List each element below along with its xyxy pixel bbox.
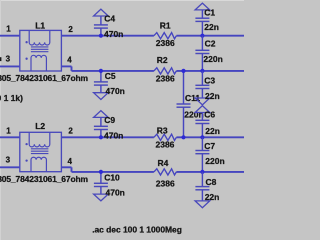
top edge highlight: [0, 0, 244, 2]
L2 core: [31, 148, 49, 150]
L1 secondary winding: [31, 55, 46, 71]
svg-text:R3: R3: [157, 125, 168, 135]
ground below C5: [94, 93, 109, 100]
svg-text:805_784231061_67ohm: 805_784231061_67ohm: [0, 73, 89, 83]
wire: jog down from pin 4 to row 2: [71, 66, 73, 71]
L1 primary winding: [29, 30, 50, 45]
wire: L1 pin 3 net (row 2 left): [0, 65, 20, 67]
L2 phase dot primary: [25, 143, 27, 145]
svg-text:1: 1: [6, 24, 11, 33]
junction: C11/row2: [181, 69, 185, 73]
junction: C4/row1: [99, 34, 103, 38]
svg-text:L1: L1: [35, 21, 45, 31]
svg-text:470n: 470n: [104, 29, 123, 39]
svg-text:C8: C8: [206, 177, 217, 187]
svg-text:220n: 220n: [205, 156, 224, 166]
L1 core: [31, 46, 49, 48]
capacitor C1: [201, 10, 203, 18]
wire: row 3 from R3 to right edge: [176, 136, 244, 138]
svg-text:470n: 470n: [106, 86, 125, 96]
capacitor C3: [201, 71, 203, 85]
wire: row 4 from R4 to right edge: [176, 171, 244, 173]
svg-text:22n: 22n: [204, 22, 219, 32]
ground (flipped) above C4: [94, 9, 109, 16]
wire: L1 pin 1 net (row 1 left): [0, 35, 20, 37]
ground (flipped) above C1: [195, 3, 210, 10]
resistor R2: [154, 68, 177, 74]
capacitor C7: [201, 137, 203, 150]
svg-text:4: 4: [67, 56, 72, 65]
L2 primary winding: [29, 132, 50, 147]
L1 phase dot secondary: [25, 58, 27, 60]
L2 phase dot secondary: [25, 159, 27, 161]
svg-text:.ac dec 100 1 1000Meg: .ac dec 100 1 1000Meg: [92, 224, 182, 234]
wire: L2 pin 4 stub: [61, 166, 71, 168]
junction: rail/row2: [200, 69, 204, 73]
svg-text:2386: 2386: [156, 178, 175, 188]
svg-text:C5: C5: [105, 71, 116, 81]
svg-text:C9: C9: [104, 115, 115, 125]
resistor R4: [154, 169, 177, 175]
capacitor C8: [201, 172, 203, 187]
svg-text:220n: 220n: [184, 109, 203, 119]
svg-text:2: 2: [68, 25, 73, 34]
capacitor C11: [183, 71, 185, 104]
svg-text:C4: C4: [104, 14, 115, 24]
svg-text:3: 3: [6, 55, 11, 64]
resistor R3: [154, 134, 177, 140]
svg-text:R1: R1: [160, 20, 171, 30]
svg-text:2: 2: [68, 127, 73, 136]
svg-text:C10: C10: [104, 172, 120, 182]
wire: row 2 from R2 to right edge: [176, 70, 244, 72]
svg-text:22n: 22n: [205, 91, 220, 101]
svg-text:805_784231061_67ohm: 805_784231061_67ohm: [0, 174, 89, 184]
svg-text:C6: C6: [204, 109, 215, 119]
resistor R1: [154, 33, 177, 39]
wire: row 3 from L2 pin 2 to R3: [61, 136, 153, 138]
svg-text:22n: 22n: [205, 192, 220, 202]
L2 secondary winding: [31, 157, 46, 171]
junction: C10/row4: [99, 170, 103, 174]
svg-text:C3: C3: [204, 76, 215, 86]
junction: C11/row3: [181, 135, 185, 139]
wire: row 4 from jog to R4: [72, 171, 154, 173]
svg-text:2386: 2386: [156, 74, 175, 84]
junction: C5/row2: [99, 69, 103, 73]
ground below C3: [195, 98, 210, 105]
wire: row 1 from R1 to right edge: [176, 35, 244, 37]
wire: row 1 from L1 pin 2 to R1: [61, 35, 153, 37]
svg-text:470n: 470n: [106, 187, 125, 197]
inductor/transformer L2 body box: [20, 132, 62, 171]
svg-text:3: 3: [6, 156, 11, 165]
svg-text:22n: 22n: [205, 126, 220, 136]
wire: L1 pin 4 stub: [61, 65, 71, 67]
svg-text:C2: C2: [205, 38, 216, 48]
svg-text:220n: 220n: [203, 54, 222, 64]
junction: C9/row3: [99, 135, 103, 139]
L1 phase dot primary: [25, 41, 27, 43]
schematic background: [0, 0, 244, 240]
svg-text:4: 4: [68, 157, 73, 166]
inductor/transformer L1 body box: [20, 30, 62, 71]
left edge highlight: [0, 0, 2, 240]
svg-text:L2: L2: [35, 121, 45, 131]
svg-text:R2: R2: [157, 55, 168, 65]
junction: rail/row1: [200, 34, 204, 38]
junction: rail/row3: [200, 135, 204, 139]
svg-text:C1: C1: [204, 8, 215, 18]
ground (flipped) above C9: [94, 111, 109, 118]
capacitor C5: [100, 71, 102, 82]
capacitor C6: [201, 113, 203, 121]
wire: L2 pin 1 net (row 3 left): [0, 136, 20, 138]
capacitor C2: [201, 36, 203, 51]
capacitor C10: [100, 172, 102, 183]
svg-text:R4: R4: [158, 158, 169, 168]
ground below C10: [94, 194, 109, 201]
svg-text:2386: 2386: [156, 38, 175, 48]
svg-text:1: 1: [6, 126, 11, 135]
svg-text:9 1 1k): 9 1 1k): [0, 93, 23, 103]
svg-text:2386: 2386: [156, 140, 175, 150]
svg-text:C7: C7: [204, 141, 215, 151]
capacitor C4: [100, 16, 102, 25]
ground (flipped) above C6: [195, 106, 210, 113]
ground below C8: [195, 201, 210, 208]
svg-text:470n: 470n: [104, 130, 123, 140]
wire: jog down from L2 pin 4 to row 4: [71, 167, 73, 172]
wire: L2 pin 3 net (row 4 left): [0, 166, 20, 168]
clipped glyph left of pin 3: [0, 57, 1, 61]
junction: rail/row4: [200, 170, 204, 174]
capacitor C9: [100, 117, 102, 126]
wire: row 2 from jog to R2: [72, 70, 154, 72]
